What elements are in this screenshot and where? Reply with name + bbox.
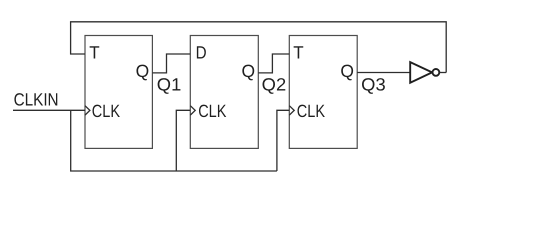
svg-text:T: T [293, 43, 304, 63]
wire Q3 from U3 Q to inverter input [357, 72, 410, 74]
svg-text:CLK: CLK [92, 101, 120, 121]
wire Q2 from U2 Q to U3 T [258, 54, 289, 73]
wire inverter output [439, 72, 446, 74]
svg-text:CLK: CLK [297, 101, 325, 121]
inverter U4 bubble [433, 69, 440, 76]
wire riser to U3 CLK [277, 110, 289, 171]
clock chevron U1 [85, 106, 90, 115]
inverter U4 triangle [410, 62, 432, 83]
svg-text:Q3: Q3 [361, 75, 386, 95]
wire Q1 from U1 Q to U2 D [152, 54, 190, 73]
wire CLKIN input [13, 109, 85, 111]
flip-flop U3 (T flip-flop) [289, 36, 357, 149]
flip-flop U2 (D flip-flop) [190, 36, 258, 149]
svg-text:Q: Q [242, 61, 256, 81]
svg-text:Q: Q [136, 61, 150, 81]
wire clock distribution bottom [71, 110, 277, 171]
svg-text:Q1: Q1 [157, 75, 182, 95]
flip-flop U1 (T flip-flop) [85, 36, 152, 149]
clock chevron U2 [190, 106, 195, 115]
wire feedback loop from inverter output to U1 T input [71, 22, 447, 73]
svg-text:Q: Q [340, 61, 354, 81]
wire riser to U2 CLK [176, 110, 190, 171]
svg-text:T: T [89, 42, 100, 62]
svg-text:Q2: Q2 [262, 75, 287, 95]
svg-text:D: D [196, 43, 207, 63]
svg-text:CLKIN: CLKIN [14, 89, 59, 109]
clock chevron U3 [289, 106, 294, 115]
svg-text:CLK: CLK [198, 101, 226, 121]
